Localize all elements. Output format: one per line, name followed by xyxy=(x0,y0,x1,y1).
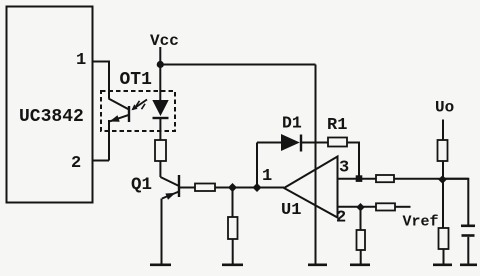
op-amp U1 triangle xyxy=(284,157,338,218)
wire D1 to R1 xyxy=(301,142,328,144)
wire to Vref terminal xyxy=(395,206,411,208)
svg-text:Vref: Vref xyxy=(403,214,439,231)
wire feedback up xyxy=(256,143,258,188)
resistor R1 xyxy=(328,138,347,147)
transistor Q1 emitter diagonal xyxy=(162,192,179,199)
transistor Q1 base bar xyxy=(178,175,180,197)
optocoupler OT1 dashed box xyxy=(101,91,175,131)
wire capacitor to ground xyxy=(467,237,469,264)
svg-text:Vcc: Vcc xyxy=(150,32,179,50)
svg-text:U1: U1 xyxy=(281,201,301,220)
IC UC3842 box xyxy=(7,7,93,203)
wire node to capacitor xyxy=(443,179,468,225)
node Vcc junction dot xyxy=(157,61,164,68)
ground center xyxy=(308,263,327,266)
wire pin1 to opto collector xyxy=(93,62,110,99)
wire Vcc rail xyxy=(160,64,315,66)
resistor to ground xyxy=(228,217,238,239)
wire pin3 resistor to output node xyxy=(394,178,468,180)
resistor lower right xyxy=(439,228,449,249)
D1 cathode bar xyxy=(300,135,302,152)
wire Vcc stem xyxy=(159,47,161,62)
node pin2 junction xyxy=(356,203,364,211)
node pin3 square dot xyxy=(356,175,363,182)
transistor Q1 collector diagonal xyxy=(160,177,179,186)
svg-text:2: 2 xyxy=(336,209,346,228)
diode D1 xyxy=(281,134,300,151)
resistor below LED xyxy=(155,140,166,161)
wire LED to resistor xyxy=(159,119,161,140)
wire Q1 emitter to ground xyxy=(161,199,163,265)
resistor Q1 base xyxy=(195,184,215,192)
opto light tick 2 xyxy=(142,104,146,109)
ground lower right xyxy=(433,263,452,266)
svg-text:1: 1 xyxy=(76,51,86,70)
wire resistor to ground xyxy=(232,239,234,264)
ground below junction xyxy=(222,263,243,266)
resistor upper right xyxy=(438,140,448,161)
resistor pin2 row xyxy=(376,203,395,210)
wire pin 2 row xyxy=(338,206,377,208)
ground Q1 emitter xyxy=(150,263,171,266)
transistor Q1 emitter arrowhead xyxy=(165,193,175,200)
wire resistor to node xyxy=(442,161,444,179)
wire Q1 base xyxy=(180,187,195,189)
svg-text:R1: R1 xyxy=(327,116,347,135)
opto light arrow xyxy=(133,100,148,110)
svg-text:D1: D1 xyxy=(282,114,302,133)
svg-text:2: 2 xyxy=(71,154,81,173)
svg-text:UC3842: UC3842 xyxy=(19,107,84,127)
wire Vcc dot to LED xyxy=(159,65,161,101)
resistor pin2 to ground xyxy=(357,230,366,250)
wire R1 down to pin3 xyxy=(347,143,359,179)
opto light tick 1 xyxy=(136,101,140,106)
opto phototransistor emitter xyxy=(110,115,129,121)
node junction left xyxy=(228,183,237,192)
svg-text:1: 1 xyxy=(262,167,272,186)
wire node down xyxy=(442,179,444,228)
wire base resistor to op-amp output xyxy=(215,187,284,189)
wire op-amp power line xyxy=(315,65,317,265)
wire Uo stem xyxy=(442,120,444,141)
wire junction down xyxy=(232,188,234,218)
resistor pin3 row xyxy=(376,175,394,182)
wire to D1 anode xyxy=(257,142,281,144)
opto phototransistor base bar xyxy=(128,106,130,122)
opto phototransistor collector xyxy=(109,99,130,110)
node op-amp output junction xyxy=(253,183,262,192)
opto emitter arrowhead xyxy=(110,115,120,122)
wire pin2 node down xyxy=(360,207,362,230)
capacitor top plate xyxy=(461,225,475,228)
svg-text:OT1: OT1 xyxy=(120,70,153,90)
LED cathode bar xyxy=(153,117,169,119)
ground capacitor xyxy=(460,263,477,266)
svg-text:3: 3 xyxy=(339,159,349,178)
capacitor bottom plate xyxy=(462,234,475,237)
ground pin2 xyxy=(350,263,370,266)
wire resistor to Q1 collector xyxy=(159,161,161,177)
wire opto emitter down xyxy=(108,120,110,161)
LED of OT1 xyxy=(152,100,168,116)
svg-text:Uo: Uo xyxy=(435,99,454,117)
wire pin 3 row xyxy=(338,178,377,180)
wire resistor to ground xyxy=(443,249,445,264)
svg-text:Q1: Q1 xyxy=(131,175,152,195)
node output junction xyxy=(438,175,447,184)
wire pin2 to opto emitter xyxy=(93,160,110,162)
wire resistor to ground xyxy=(360,250,362,265)
